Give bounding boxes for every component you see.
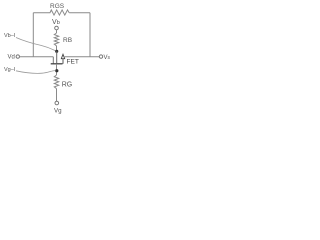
resistor RG	[54, 75, 58, 89]
wire right vertical	[89, 13, 91, 57]
FET channel bar	[51, 63, 63, 65]
wire FET to Vs	[65, 56, 100, 58]
svg-text:RB: RB	[63, 37, 72, 44]
terminal Vg	[55, 101, 59, 105]
svg-text:RGS: RGS	[50, 3, 65, 10]
svg-text:Vg: Vg	[54, 107, 62, 114]
svg-text:Vb: Vb	[52, 19, 60, 26]
wire FET to RG	[56, 64, 58, 75]
wire RB to gate node	[56, 46, 58, 52]
terminal Vd	[16, 55, 19, 58]
svg-text:RG: RG	[62, 82, 72, 89]
wire Vb to RB	[56, 30, 58, 33]
wire top right	[69, 12, 90, 14]
svg-text:Vg–I: Vg–I	[4, 67, 16, 73]
leader line Vb-I	[16, 38, 55, 51]
junction dot gate node	[55, 50, 58, 53]
FET source arrow	[61, 54, 64, 58]
FET source electrode	[62, 59, 64, 64]
wire gate vertical	[56, 51, 58, 64]
junction dot source node	[55, 69, 58, 72]
svg-text:Vb–I: Vb–I	[4, 33, 16, 39]
wire RG to Vg	[56, 89, 58, 102]
leader line Vg-I	[16, 71, 55, 74]
svg-text:FET: FET	[67, 59, 79, 66]
svg-text:Vs: Vs	[104, 55, 111, 61]
resistor RB	[54, 33, 58, 46]
wire Vd to FET drain	[20, 56, 54, 58]
wire left vertical	[32, 13, 34, 57]
terminal Vb	[55, 26, 59, 30]
resistor RGS	[33, 10, 69, 15]
svg-text:Vd: Vd	[8, 55, 15, 61]
FET drain electrode	[52, 57, 54, 64]
terminal Vs	[99, 55, 102, 58]
